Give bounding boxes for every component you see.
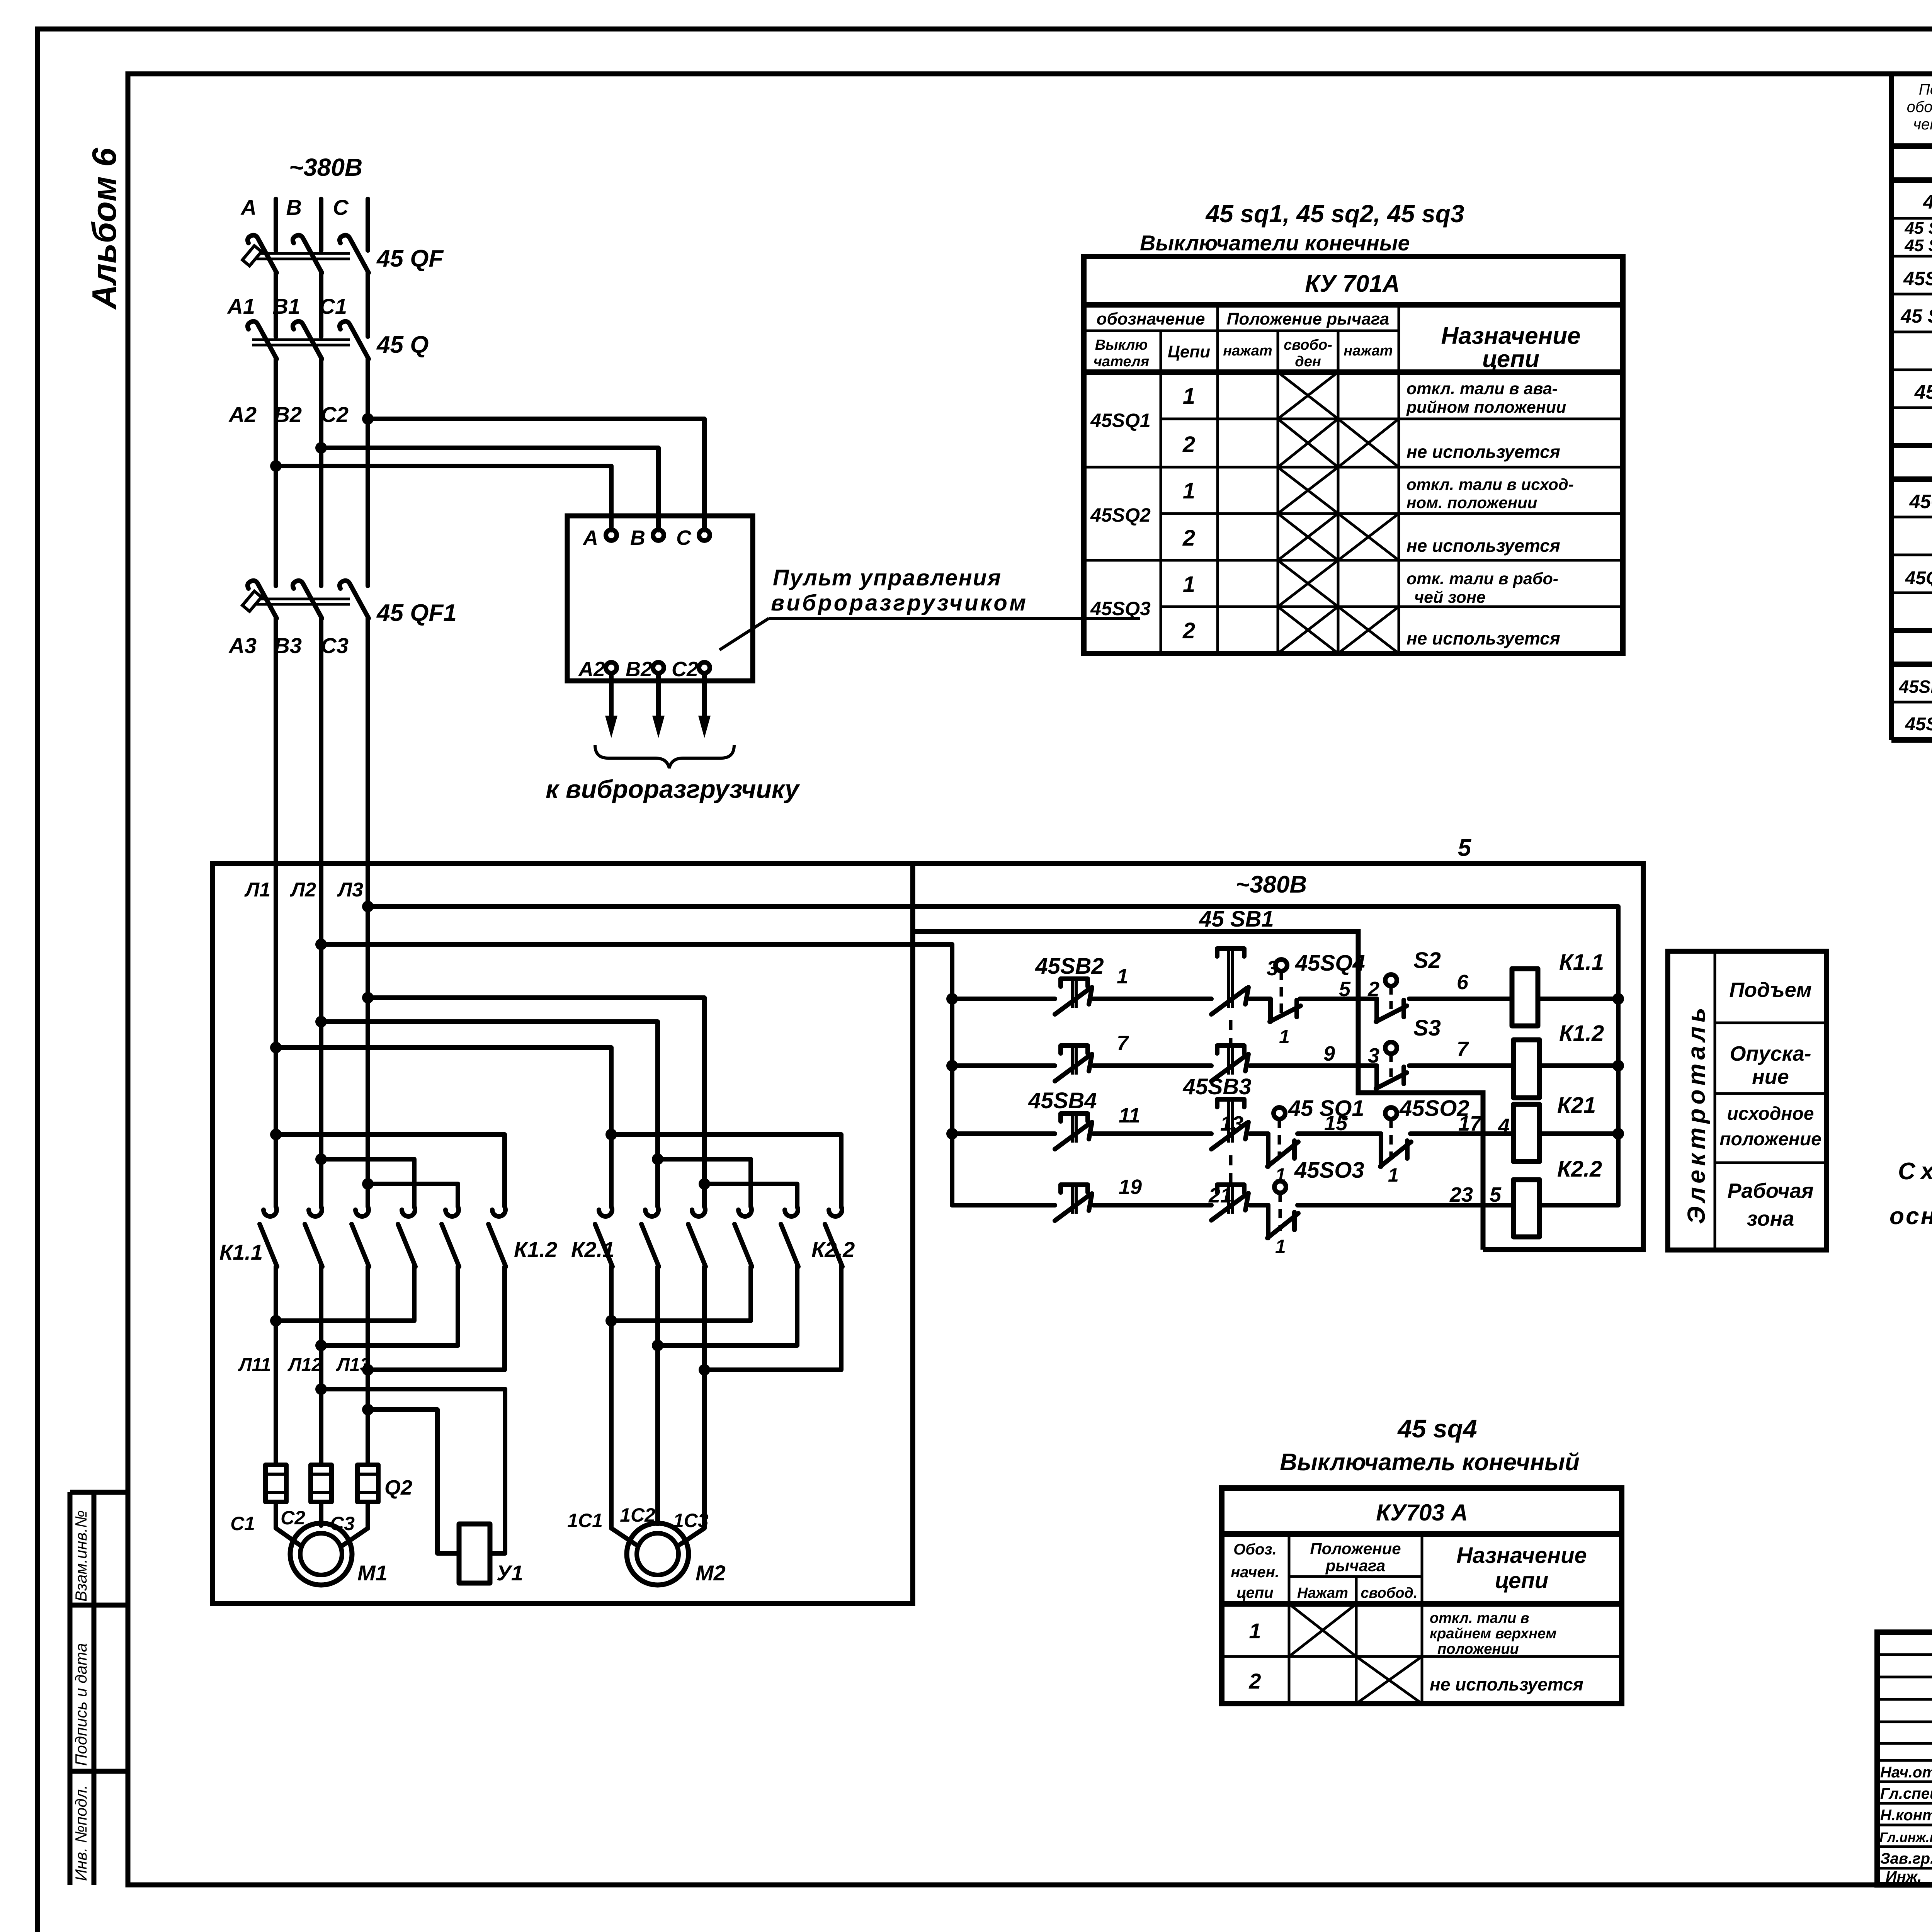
svg-text:11: 11 [1119, 1104, 1140, 1127]
svg-text:45 sq1, 45 sq2, 45 sq3: 45 sq1, 45 sq2, 45 sq3 [1205, 200, 1464, 228]
svg-text:45SB1...: 45SB1... [1899, 677, 1932, 697]
svg-text:В: В [286, 195, 302, 219]
wires into motor M1 [276, 1502, 368, 1546]
junction A2 [270, 460, 282, 472]
svg-text:цепи: цепи [1482, 346, 1539, 372]
relay coil K1.2 [1514, 1040, 1539, 1098]
brake wire 2 [368, 1410, 458, 1553]
relay coil K2.2 [1514, 1180, 1539, 1237]
svg-text:21: 21 [1208, 1184, 1232, 1207]
wire row1 [952, 997, 1618, 1001]
svg-text:23: 23 [1449, 1183, 1473, 1206]
svg-text:2: 2 [1182, 526, 1195, 551]
svg-text:основании чертежа ТЭ55193 Х: основании чертежа ТЭ55193 Харьковского з… [1889, 1203, 1932, 1230]
svg-text:С2: С2 [281, 1507, 305, 1529]
leader line to panel [719, 618, 769, 650]
svg-text:М2: М2 [696, 1561, 726, 1585]
svg-text:не используется: не используется [1406, 628, 1560, 648]
svg-text:КУ703 А: КУ703 А [1376, 1500, 1468, 1526]
svg-text:Гл.спец: Гл.спец [1880, 1785, 1932, 1802]
left margin stamp boxes [70, 1492, 128, 1885]
wire phase L2 down [309, 864, 322, 1216]
svg-text:Назначение: Назначение [1456, 1543, 1587, 1568]
svg-text:Опуска-: Опуска- [1730, 1042, 1811, 1065]
enclosure box 5 top and right [913, 864, 1643, 1250]
svg-text:45 Q: 45 Q [376, 332, 429, 358]
svg-text:Пульт управления: Пульт управления [773, 565, 1001, 590]
svg-text:В2: В2 [626, 658, 652, 681]
svg-text:1: 1 [1117, 965, 1128, 988]
svg-text:45SB3: 45SB3 [1182, 1074, 1251, 1099]
wire K2.1-2 to K2.2 pole1 [658, 1159, 752, 1216]
svg-text:крайнем верхнем: крайнем верхнем [1430, 1626, 1556, 1642]
svg-text:Электроталь: Электроталь [1682, 1008, 1710, 1224]
X mark row2 свобод [1356, 1656, 1422, 1704]
X marks col свободен [1278, 372, 1338, 653]
motor M2 [627, 1523, 689, 1585]
svg-text:чей зоне: чей зоне [1414, 588, 1486, 607]
svg-text:Схема управления электроталь: Схема управления электроталью выполнена … [1898, 1158, 1932, 1185]
X marks col нажат rows 2 4 6 [1338, 419, 1399, 653]
svg-text:А2: А2 [228, 402, 257, 427]
svg-text:не используется: не используется [1406, 536, 1560, 556]
svg-text:Л1: Л1 [244, 879, 270, 901]
svg-text:не используется: не используется [1406, 442, 1560, 462]
wires into motor M2 [611, 1267, 704, 1544]
wire K2.1-1 to K2.2 pole3 [611, 1134, 842, 1216]
svg-text:45SQ1: 45SQ1 [1090, 410, 1151, 431]
svg-text:Выключатели конечные: Выключатели конечные [1140, 231, 1410, 255]
svg-text:45 SB1: 45 SB1 [1199, 906, 1274, 932]
wire L1 to K1.2 pole3 [276, 1134, 505, 1216]
svg-text:ном. положении: ном. положении [1406, 493, 1537, 512]
svg-text:М1: М1 [357, 1561, 388, 1585]
svg-text:S2: S2 [1413, 948, 1441, 973]
svg-text:зона: зона [1747, 1207, 1794, 1230]
svg-text:45QF: 45QF [1909, 491, 1932, 512]
svg-text:КУ 701А: КУ 701А [1305, 270, 1400, 297]
svg-text:У1: У1 [497, 1561, 523, 1585]
signature table grid [1877, 1632, 1932, 1885]
svg-text:откл. тали в исход-: откл. тали в исход- [1406, 475, 1574, 493]
svg-text:~380В: ~380В [289, 153, 362, 181]
thermal elements Q2 [265, 1465, 378, 1502]
svg-text:К2.2: К2.2 [1557, 1156, 1602, 1182]
svg-text:Подпись и дата: Подпись и дата [72, 1643, 90, 1766]
hoist function table [1668, 951, 1827, 1250]
svg-text:К21: К21 [1557, 1093, 1596, 1118]
svg-text:С1: С1 [319, 294, 347, 318]
table KU701A grid [1084, 257, 1623, 653]
knife switch 45Q [248, 307, 369, 586]
brake wire 1 [321, 1389, 505, 1553]
contactor K2.1 blades [595, 1224, 706, 1267]
svg-text:Альбом 6: Альбом 6 [85, 148, 123, 310]
svg-text:1: 1 [1388, 1164, 1399, 1186]
panel П2 boundary [913, 932, 1483, 1250]
svg-text:положении: положении [1437, 1641, 1519, 1657]
svg-text:Л13: Л13 [336, 1355, 371, 1375]
svg-text:45SB4: 45SB4 [1905, 714, 1932, 735]
svg-text:чение: чение [1913, 116, 1932, 133]
svg-text:Обоз.: Обоз. [1233, 1541, 1277, 1558]
contactor K1.2 blades [398, 1224, 506, 1267]
svg-text:обозна-: обозна- [1907, 99, 1932, 116]
contactor K1.1 blades [260, 1224, 369, 1267]
circuit breaker 45QF1 [242, 581, 369, 864]
svg-text:исходное: исходное [1727, 1104, 1814, 1124]
terminal B [653, 530, 664, 541]
svg-text:ден: ден [1295, 354, 1321, 370]
output arrow C2 [702, 673, 707, 726]
svg-text:С: С [333, 195, 349, 219]
svg-text:Положение рычага: Положение рычага [1227, 310, 1389, 328]
brace to vibro-unloader [595, 745, 734, 768]
svg-text:нажат: нажат [1344, 343, 1393, 359]
svg-text:откл. тали в ава-: откл. тали в ава- [1406, 379, 1558, 398]
svg-text:Зав.гр.: Зав.гр. [1880, 1850, 1932, 1867]
svg-text:Л2: Л2 [289, 879, 316, 901]
terminal C [699, 530, 710, 541]
svg-text:А: А [582, 526, 598, 549]
svg-text:45 SQ1: 45 SQ1 [1904, 219, 1932, 238]
svg-text:Л12: Л12 [287, 1355, 322, 1375]
svg-text:45SQ3: 45SQ3 [1090, 598, 1151, 619]
svg-text:К1.2: К1.2 [514, 1237, 557, 1262]
svg-text:Q2: Q2 [384, 1476, 412, 1499]
svg-text:А2: А2 [578, 658, 605, 681]
svg-text:чателя: чателя [1094, 354, 1149, 370]
svg-text:С: С [676, 526, 692, 549]
wire C2 to panel [368, 419, 704, 530]
svg-text:К1.1: К1.1 [1559, 950, 1604, 975]
junction B2 [315, 442, 327, 454]
svg-text:7: 7 [1457, 1037, 1469, 1061]
wire row4 [952, 1203, 1618, 1207]
svg-text:к виброразгрузчику: к виброразгрузчику [546, 775, 800, 803]
svg-text:Положение: Положение [1310, 1539, 1401, 1558]
svg-text:1: 1 [1183, 478, 1195, 503]
svg-text:1: 1 [1279, 1026, 1290, 1048]
svg-text:Цепи: Цепи [1168, 342, 1210, 361]
parts list table grid [1891, 74, 1932, 740]
terminal C2 [699, 662, 710, 673]
svg-text:9: 9 [1323, 1042, 1335, 1065]
svg-text:1: 1 [1249, 1619, 1261, 1643]
svg-text:Подъем: Подъем [1729, 978, 1811, 1002]
svg-text:Л3: Л3 [337, 879, 363, 901]
svg-text:1С1: 1С1 [567, 1510, 603, 1531]
wire K2.1-3 to K2.2 pole2 [704, 1184, 798, 1216]
svg-text:2: 2 [1182, 432, 1195, 457]
wire L1 to K2.1 pole1 [276, 1048, 612, 1216]
svg-text:Н.контр: Н.контр [1880, 1807, 1932, 1824]
svg-text:А3: А3 [228, 633, 257, 658]
svg-text:К1.1: К1.1 [219, 1240, 263, 1264]
svg-text:положение: положение [1719, 1129, 1821, 1150]
motor M1 [290, 1523, 352, 1585]
svg-text:начен.: начен. [1231, 1564, 1279, 1581]
svg-text:45QF1: 45QF1 [1905, 568, 1932, 588]
wire K1.1 pole bottoms to fuses [276, 1267, 368, 1465]
svg-text:Л11: Л11 [238, 1355, 271, 1375]
svg-text:45SB2: 45SB2 [1035, 954, 1104, 979]
svg-text:С2: С2 [672, 658, 698, 681]
svg-text:45 SQ4: 45 SQ4 [1900, 305, 1932, 327]
svg-text:ние: ние [1752, 1065, 1789, 1088]
svg-text:5: 5 [1339, 978, 1351, 1001]
wire row3 [952, 1131, 1618, 1136]
svg-text:В: В [630, 526, 645, 549]
svg-text:С1: С1 [230, 1513, 255, 1534]
wire L2 control left bus [321, 944, 952, 1205]
svg-text:17: 17 [1458, 1112, 1483, 1135]
svg-text:Нажат: Нажат [1297, 1585, 1348, 1601]
wire L3 to K2.1 pole3 [368, 998, 705, 1216]
svg-text:45: 45 [1923, 191, 1932, 213]
terminal A2 [606, 662, 617, 673]
svg-text:свобо-: свобо- [1284, 337, 1332, 353]
junction C2 [362, 413, 374, 425]
wire L3 to K1.2 pole2 [368, 1184, 459, 1216]
svg-text:откл. тали в: откл. тали в [1430, 1610, 1529, 1626]
svg-text:Выклю: Выклю [1095, 337, 1148, 353]
wire phase L1 down [264, 864, 277, 1216]
svg-text:1: 1 [1183, 384, 1195, 409]
svg-text:Инв. №подл.: Инв. №подл. [72, 1785, 90, 1881]
svg-text:рычага: рычага [1325, 1556, 1386, 1575]
svg-text:С2: С2 [321, 402, 349, 427]
wire A2 to panel [276, 466, 611, 530]
svg-text:Назначение: Назначение [1441, 323, 1581, 349]
svg-text:Гл.инж.пр: Гл.инж.пр [1879, 1830, 1932, 1845]
svg-text:5: 5 [1458, 835, 1472, 861]
terminal B2 [653, 662, 664, 673]
svg-text:1: 1 [1275, 1236, 1286, 1257]
svg-text:45SB4: 45SB4 [1028, 1088, 1097, 1113]
wire B2 to panel [321, 448, 658, 530]
svg-text:Инж.: Инж. [1886, 1868, 1922, 1885]
svg-text:45 QF: 45 QF [376, 245, 444, 272]
svg-text:А: А [240, 195, 257, 219]
svg-text:45SO3: 45SO3 [1294, 1158, 1364, 1183]
wire L2 to K2.1 pole2 [321, 1022, 658, 1216]
contactor K2.2 blades [735, 1224, 842, 1267]
svg-text:7: 7 [1117, 1032, 1129, 1055]
svg-text:виброразгрузчиком: виброразгрузчиком [771, 590, 1026, 616]
svg-text:13: 13 [1220, 1112, 1243, 1135]
wire L2 to K1.2 pole1 [321, 1159, 415, 1216]
svg-text:45SQ3: 45SQ3 [1903, 268, 1932, 289]
wire phase L3 down [355, 864, 369, 1216]
svg-text:не используется: не используется [1430, 1674, 1583, 1694]
terminal A [606, 530, 617, 541]
wire K1.2 bottoms crossover [276, 1267, 505, 1370]
svg-text:К2.1: К2.1 [571, 1237, 614, 1262]
wire L3 control supply bus [368, 906, 1618, 1205]
svg-text:~380В: ~380В [1236, 871, 1307, 898]
svg-text:45SQ2: 45SQ2 [1090, 504, 1151, 526]
svg-text:5: 5 [1490, 1183, 1502, 1206]
svg-text:45Q: 45Q [1914, 381, 1932, 403]
wire row2 [952, 1063, 1618, 1068]
wire K2.2 bottoms crossover [611, 1267, 841, 1370]
svg-text:45 sq4: 45 sq4 [1397, 1414, 1477, 1443]
svg-text:Нач.отд.: Нач.отд. [1880, 1764, 1932, 1781]
svg-text:Выключатель конечный: Выключатель конечный [1280, 1449, 1580, 1476]
svg-text:Взам.инв.№: Взам.инв.№ [72, 1510, 90, 1602]
svg-text:С3: С3 [321, 633, 349, 658]
svg-text:45SQ4: 45SQ4 [1295, 951, 1365, 976]
svg-text:S3: S3 [1413, 1015, 1441, 1041]
output arrow A2 [609, 673, 614, 726]
svg-text:цепи: цепи [1236, 1584, 1273, 1601]
svg-text:нажат: нажат [1223, 343, 1272, 359]
svg-text:19: 19 [1119, 1175, 1142, 1199]
svg-text:цепи: цепи [1495, 1568, 1548, 1593]
svg-text:Рабочая: Рабочая [1727, 1179, 1813, 1202]
enclosure box motors [213, 864, 913, 1604]
svg-text:В2: В2 [274, 402, 302, 427]
svg-text:15: 15 [1324, 1112, 1348, 1135]
table KU703A grid [1222, 1488, 1622, 1704]
brake Y1 [459, 1524, 490, 1583]
svg-text:1: 1 [1183, 572, 1195, 597]
X mark row1 нажат [1289, 1604, 1356, 1656]
svg-text:К1.2: К1.2 [1559, 1021, 1604, 1046]
svg-text:свобод.: свобод. [1361, 1585, 1417, 1601]
svg-text:2: 2 [1248, 1669, 1261, 1693]
relay coil K21 [1514, 1104, 1539, 1162]
svg-text:рийном положении: рийном положении [1406, 398, 1566, 417]
svg-text:6: 6 [1457, 971, 1469, 994]
title block frame [1877, 1632, 1932, 1885]
relay coil K1.1 [1512, 969, 1538, 1026]
svg-text:2: 2 [1182, 618, 1195, 643]
svg-text:отк. тали в рабо-: отк. тали в рабо- [1406, 570, 1558, 588]
output arrow B2 [656, 673, 661, 726]
svg-text:В3: В3 [274, 633, 302, 658]
circuit breaker 45QF [242, 199, 369, 307]
svg-text:45 SQ2: 45 SQ2 [1904, 236, 1932, 255]
control panel box Пульт [567, 516, 753, 681]
svg-text:обозначение: обозначение [1097, 310, 1205, 328]
svg-text:45 QF1: 45 QF1 [376, 600, 457, 626]
svg-text:4: 4 [1498, 1114, 1510, 1138]
svg-text:А1: А1 [226, 294, 255, 318]
svg-text:Поз.: Поз. [1919, 81, 1932, 98]
svg-text:К2.2: К2.2 [811, 1237, 855, 1262]
